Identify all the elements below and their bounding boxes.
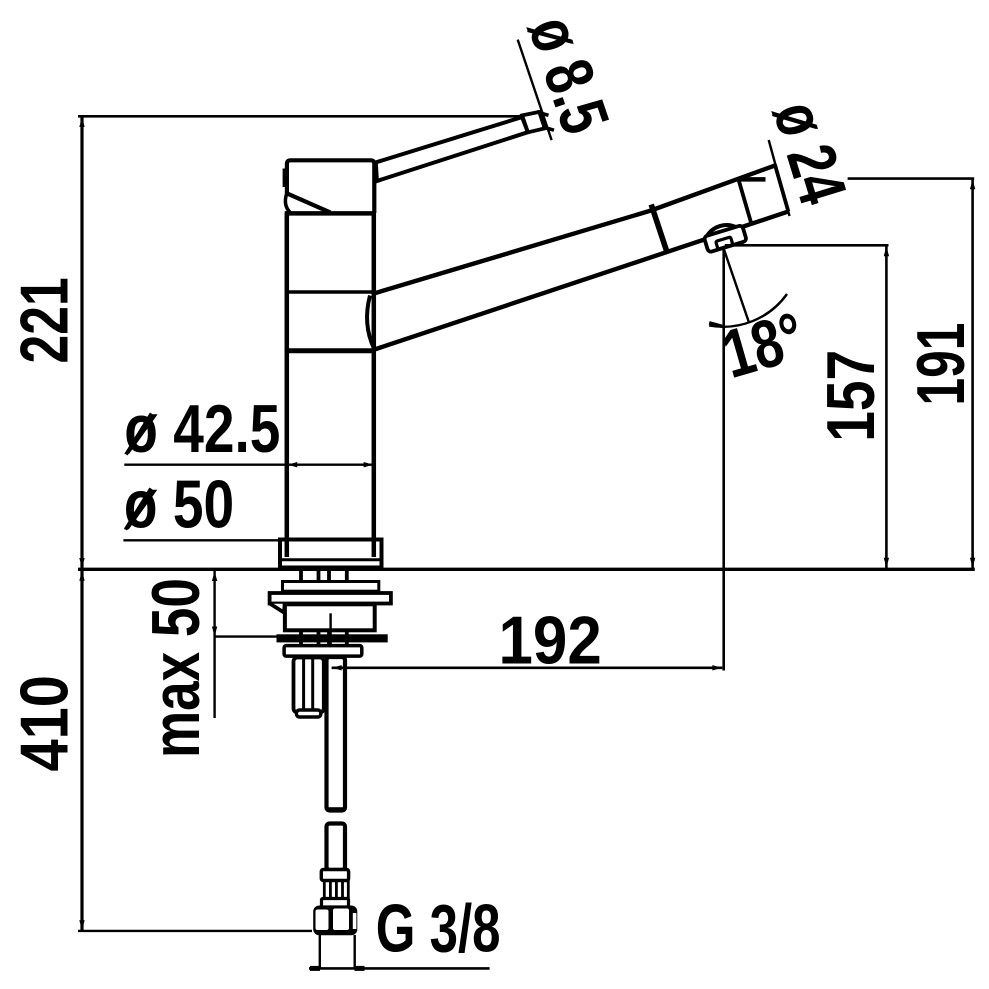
faucet body (285, 213, 376, 557)
dim 191 line (970, 179, 975, 569)
svg-text:max 50: max 50 (138, 578, 214, 758)
label ø 24 (759, 93, 861, 213)
dim 191 top extension segments (740, 177, 975, 180)
dim 192 center extension (329, 613, 331, 670)
thread ribs (324, 881, 348, 900)
dim line ø42.5 (124, 462, 373, 467)
right tab (348, 605, 370, 614)
counter deck line (78, 568, 975, 571)
svg-text:410: 410 (7, 675, 82, 771)
angle 18 slant line (724, 249, 749, 322)
dim max50 line (212, 570, 277, 718)
dim 221 vertical line (79, 117, 84, 931)
angle 18 extension vertical (722, 249, 725, 671)
cartridge cap (285, 160, 375, 213)
label ø 8.5 (514, 7, 624, 143)
svg-text:ø 42.5: ø 42.5 (124, 392, 280, 468)
seal bar (277, 634, 388, 642)
lever handle (376, 112, 545, 181)
dim 157 top extension (725, 244, 889, 247)
washer metal (270, 593, 391, 604)
dim 192 line (332, 665, 723, 670)
washer lower (284, 646, 362, 657)
dim G3/8 line (309, 967, 490, 970)
under-deck shank lines (301, 571, 347, 645)
supply pipe upper end cap line (328, 807, 344, 810)
washer rubber (283, 582, 379, 592)
nut G3/8 (313, 899, 357, 936)
supply pipe lower (327, 824, 346, 871)
base flange (280, 539, 382, 568)
dim 410 bottom extension line (78, 930, 312, 932)
svg-text:191: 191 (902, 323, 979, 406)
dim line ø24 (740, 140, 790, 216)
supply pipe upper (327, 657, 346, 811)
svg-text:G 3/8: G 3/8 (376, 891, 501, 967)
aerator (702, 220, 747, 253)
svg-text:221: 221 (5, 277, 82, 363)
dim 221 top extension line (78, 115, 522, 118)
ferrule (321, 870, 348, 881)
left tab (270, 604, 284, 613)
spout (367, 165, 788, 350)
dim line ø8.5 (518, 40, 554, 141)
nut extension lines (320, 935, 355, 968)
svg-text:192: 192 (499, 602, 602, 678)
dim line ø50 (123, 539, 283, 541)
threaded stud (294, 658, 324, 718)
mounting nut (285, 604, 375, 630)
svg-text:157: 157 (814, 350, 890, 442)
angle 18 arc (709, 294, 787, 327)
dim 157 line (884, 245, 889, 568)
